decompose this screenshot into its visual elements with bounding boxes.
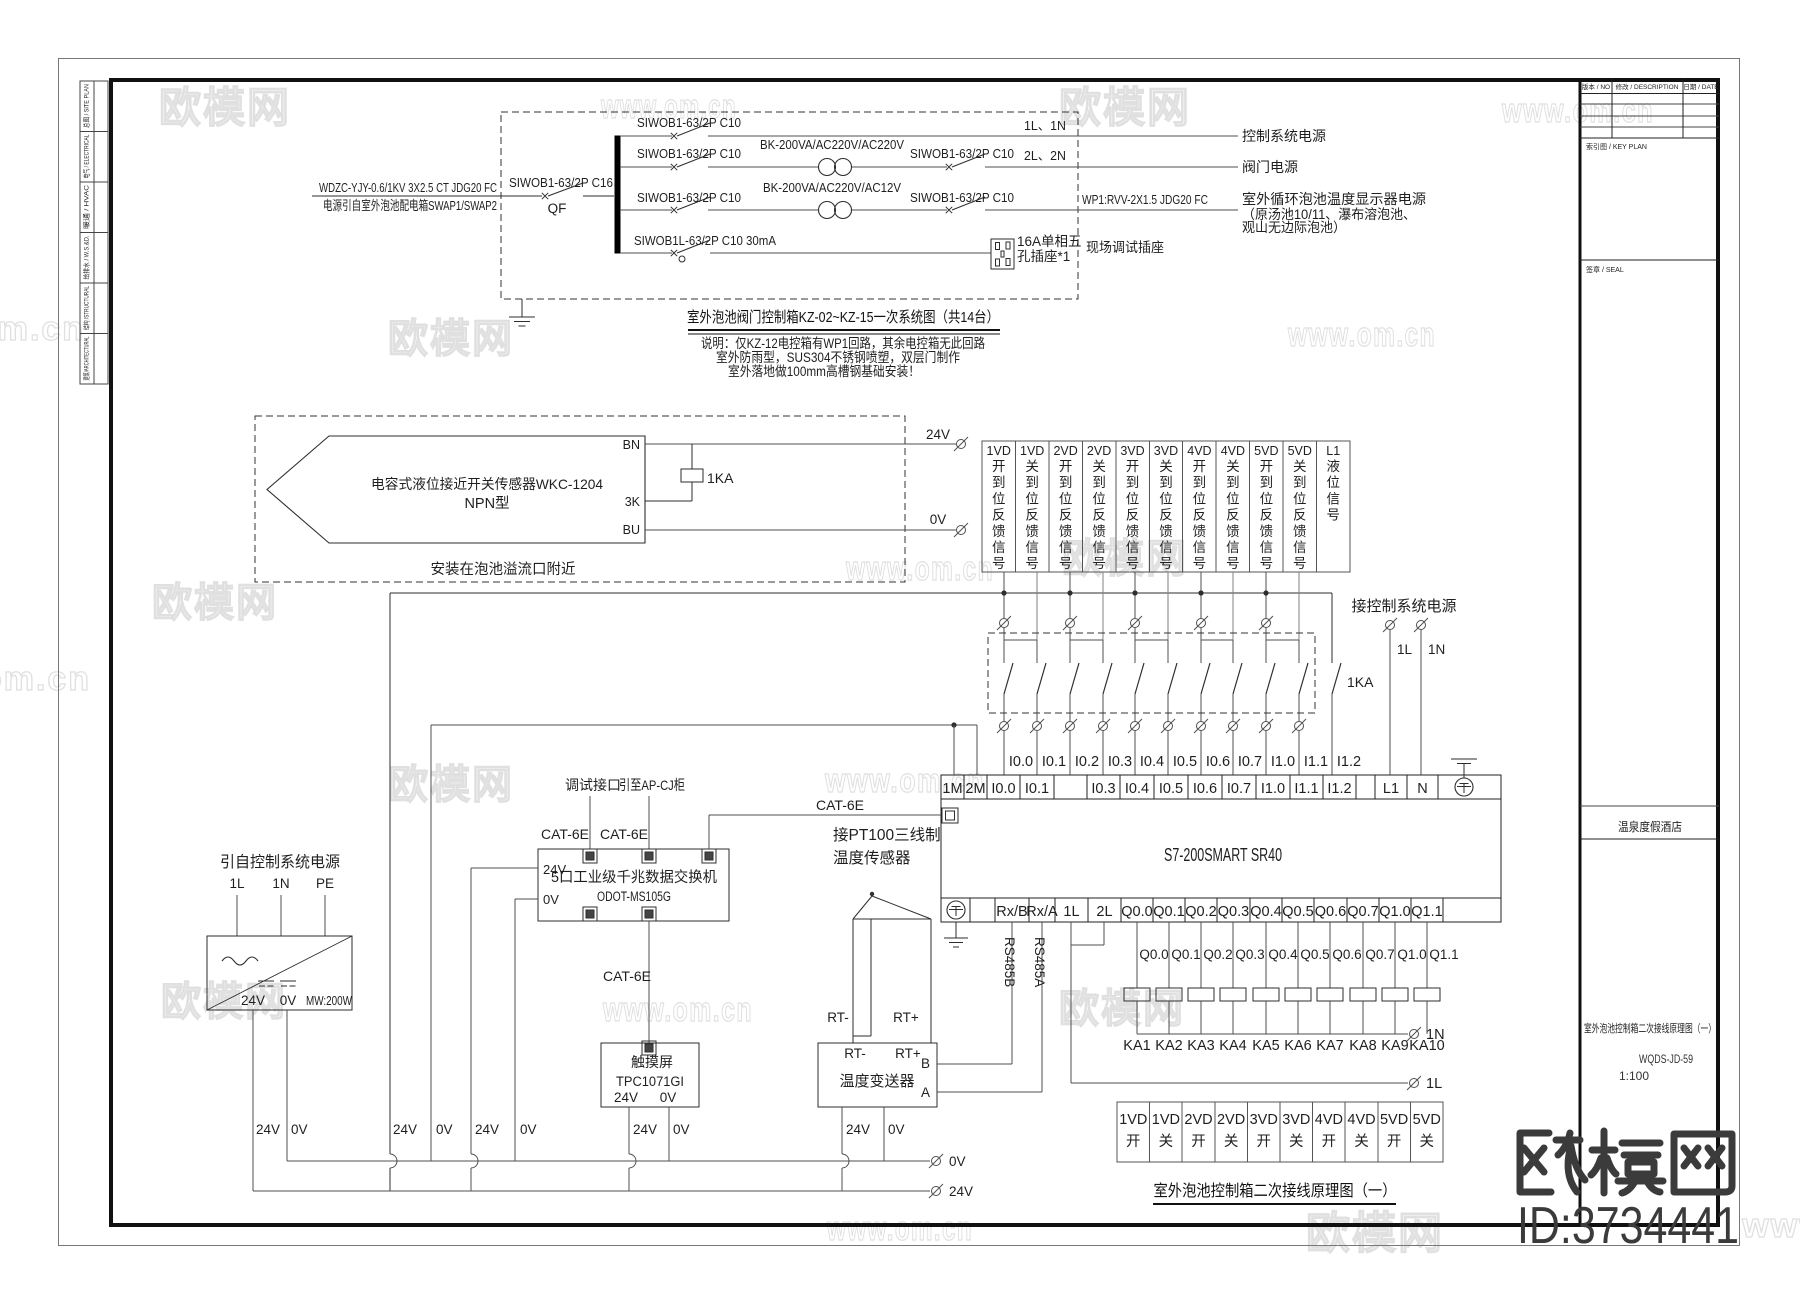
wire PSU 24V down (252, 1010, 254, 1191)
svg-text:SIWOB1-63/2P C10: SIWOB1-63/2P C10 (910, 146, 1014, 161)
svg-text:I0.6: I0.6 (1193, 781, 1217, 797)
level sensor WKC-1204 body (267, 436, 645, 543)
svg-text:24V: 24V (633, 1122, 657, 1137)
ground symbol (panel) (521, 299, 523, 317)
wire feedback pair 5 (1265, 572, 1267, 618)
svg-text:位: 位 (1326, 475, 1340, 490)
svg-text:信: 信 (1159, 540, 1173, 555)
svg-text:反: 反 (992, 508, 1006, 523)
svg-text:I0.6: I0.6 (1206, 754, 1230, 770)
wire 1N to PSU (280, 895, 282, 936)
svg-text:KA1: KA1 (1123, 1038, 1150, 1054)
svg-text:反: 反 (1226, 508, 1240, 523)
RJ45 port top1 (583, 849, 597, 863)
svg-text:总图 / SITE PLAN: 总图 / SITE PLAN (82, 84, 91, 128)
signal box L1液位信号 (1317, 441, 1350, 572)
title block (1579, 79, 1582, 1226)
signal box 3VD开到位反馈信号 (1116, 441, 1149, 572)
svg-text:SIWOB1-63/2P C10: SIWOB1-63/2P C10 (910, 190, 1014, 205)
svg-text:4VD: 4VD (1347, 1112, 1375, 1128)
relay coil 1KA (691, 444, 693, 469)
svg-text:2VD: 2VD (1087, 444, 1111, 458)
terminal PE bottom (circled earth) (947, 901, 965, 919)
svg-text:反: 反 (1159, 508, 1173, 523)
svg-text:www.om.cn: www.om.cn (1287, 316, 1436, 354)
junction bus pair2 (1067, 590, 1072, 595)
svg-text:欧模网: 欧模网 (152, 581, 278, 625)
svg-text:号: 号 (1025, 556, 1039, 571)
svg-text:KA6: KA6 (1284, 1038, 1311, 1054)
svg-text:om.cn: om.cn (0, 310, 85, 348)
svg-text:Q0.1: Q0.1 (1171, 947, 1200, 962)
svg-text:欧模网: 欧模网 (159, 84, 291, 131)
svg-text:室外泡池控制箱二次接线原理图（一）: 室外泡池控制箱二次接线原理图（一） (1154, 1182, 1397, 1200)
wire PSU 0V down (286, 1010, 288, 1161)
svg-text:Rx/A: Rx/A (1026, 904, 1058, 920)
wire 0V main down (430, 725, 432, 1161)
svg-text:WDZC-YJY-0.6/1KV 3X2.5 CT JDG2: WDZC-YJY-0.6/1KV 3X2.5 CT JDG20 FC (319, 180, 497, 195)
svg-text:24V: 24V (256, 1122, 280, 1137)
svg-text:2L: 2L (1096, 904, 1112, 920)
svg-text:电源引自室外泡池配电箱SWAP1/SWAP2: 电源引自室外泡池配电箱SWAP1/SWAP2 (323, 198, 497, 213)
svg-text:到: 到 (1092, 475, 1106, 490)
svg-text:关: 关 (1159, 459, 1173, 474)
svg-text:5VD: 5VD (1254, 444, 1278, 458)
svg-text:号: 号 (1293, 556, 1307, 571)
node contact3 lower (1063, 719, 1077, 733)
node 1N feed (1414, 618, 1428, 632)
svg-text:号: 号 (1126, 556, 1140, 571)
svg-text:欧模网: 欧模网 (1059, 987, 1185, 1031)
svg-text:KA9: KA9 (1381, 1038, 1408, 1054)
svg-text:开: 开 (992, 459, 1006, 474)
PLC output terminal row (969, 898, 971, 922)
svg-text:24V: 24V (241, 993, 265, 1008)
node 0V bus end (929, 1154, 943, 1168)
svg-text:开: 开 (1322, 1134, 1337, 1150)
svg-text:CAT-6E: CAT-6E (816, 797, 864, 813)
terminal PE top (circled earth) (1455, 778, 1473, 796)
svg-text:安装在泡池溢流口附近: 安装在泡池溢流口附近 (431, 561, 576, 578)
svg-text:反: 反 (1025, 508, 1039, 523)
svg-text:1N: 1N (272, 876, 289, 891)
svg-text:馈: 馈 (1226, 524, 1240, 539)
limit switch contact 4 (1103, 663, 1112, 694)
svg-text:欧模网: 欧模网 (1306, 1209, 1444, 1258)
svg-text:SIWOB1L-63/2P C10 30mA: SIWOB1L-63/2P C10 30mA (634, 233, 776, 248)
svg-text:www.om.cn: www.om.cn (602, 991, 753, 1029)
svg-text:调试接口: 调试接口 (565, 777, 621, 793)
svg-text:1N: 1N (1428, 642, 1445, 657)
svg-text:信: 信 (1025, 540, 1039, 555)
wire branch1 (620, 135, 672, 137)
svg-text:L1: L1 (1326, 444, 1340, 458)
svg-text:0V: 0V (888, 1122, 905, 1137)
svg-text:Q0.6: Q0.6 (1332, 947, 1361, 962)
svg-text:Q0.0: Q0.0 (1139, 947, 1168, 962)
PLC S7-200SMART SR40 body (941, 775, 1501, 922)
wire switch 0V down (514, 899, 516, 1161)
svg-text:I0.4: I0.4 (1140, 754, 1164, 770)
PT100 probe (870, 892, 874, 896)
svg-text:2M: 2M (965, 781, 985, 797)
svg-text:1VD: 1VD (1152, 1112, 1180, 1128)
svg-text:开: 开 (1191, 1134, 1206, 1150)
node 0V sensor (954, 523, 968, 537)
svg-text:位: 位 (1025, 491, 1039, 506)
svg-text:馈: 馈 (1092, 524, 1106, 539)
svg-text:信: 信 (1126, 540, 1140, 555)
signal box 2VD关到位反馈信号 (1082, 441, 1115, 572)
node contact7 lower (1194, 719, 1208, 733)
RJ45 port touchscreen (642, 1041, 656, 1055)
temperature transmitter (818, 1043, 937, 1107)
wire PE to PSU (324, 895, 326, 936)
svg-text:修改 / DESCRIPTION: 修改 / DESCRIPTION (1616, 82, 1679, 91)
svg-text:KA3: KA3 (1187, 1038, 1214, 1054)
svg-text:2VD: 2VD (1053, 444, 1077, 458)
svg-text:RT-: RT- (844, 1046, 866, 1061)
svg-text:I1.2: I1.2 (1337, 754, 1361, 770)
node terminal pair3 (1128, 616, 1142, 630)
svg-text:号: 号 (1159, 556, 1173, 571)
junction bus pair1 (1001, 590, 1006, 595)
svg-text:5口工业级千兆数据交换机: 5口工业级千兆数据交换机 (551, 868, 717, 886)
breaker branch4 SIWOB1L-63/2P C10 30mA RCD (671, 250, 677, 256)
svg-text:24V: 24V (475, 1122, 499, 1137)
wire CAT6 to touchscreen (648, 921, 650, 1043)
svg-text:5VD: 5VD (1288, 444, 1312, 458)
svg-text:馈: 馈 (1159, 524, 1173, 539)
svg-text:反: 反 (1293, 508, 1307, 523)
svg-text:信: 信 (1092, 540, 1106, 555)
node contact8 lower (1226, 719, 1240, 733)
svg-text:RS485A: RS485A (1032, 937, 1047, 987)
svg-text:KA5: KA5 (1252, 1038, 1279, 1054)
svg-text:暖通 / HVAC: 暖通 / HVAC (82, 185, 91, 229)
svg-text:接控制系统电源: 接控制系统电源 (1351, 598, 1456, 615)
valve box 1VD开 (1117, 1102, 1150, 1162)
limit switch contact 8 (1233, 663, 1242, 694)
svg-text:4VD: 4VD (1315, 1112, 1343, 1128)
svg-text:到: 到 (1126, 475, 1140, 490)
svg-text:信: 信 (1326, 491, 1340, 506)
svg-text:索引图 / KEY PLAN: 索引图 / KEY PLAN (1586, 142, 1647, 151)
svg-text:I0.2: I0.2 (1075, 754, 1099, 770)
breaker branch2b SIWOB1-63/2P C10 (946, 164, 952, 170)
svg-text:反: 反 (1193, 508, 1207, 523)
svg-text:关: 关 (1025, 459, 1039, 474)
svg-text:触摸屏: 触摸屏 (631, 1054, 673, 1070)
RJ45 port bottom1 (583, 907, 597, 921)
node terminal pair1 (997, 616, 1011, 630)
svg-text:接PT100三线制: 接PT100三线制 (833, 826, 941, 844)
node 24V sensor (954, 437, 968, 451)
svg-text:关: 关 (1092, 459, 1106, 474)
wire transmitter A (937, 1091, 1042, 1093)
wire M common (431, 724, 977, 726)
earth symbol above PLC (1451, 758, 1477, 760)
svg-text:到: 到 (1293, 475, 1307, 490)
relay coil KA5 (1265, 922, 1267, 988)
svg-text:I0.1: I0.1 (1025, 781, 1049, 797)
svg-text:开: 开 (1126, 1134, 1141, 1150)
svg-text:温度变送器: 温度变送器 (839, 1073, 914, 1090)
svg-text:馈: 馈 (1193, 524, 1207, 539)
svg-text:到: 到 (1025, 475, 1039, 490)
breaker branch3b SIWOB1-63/2P C10 (946, 207, 952, 213)
svg-text:开: 开 (1193, 459, 1207, 474)
svg-text:温度传感器: 温度传感器 (833, 849, 911, 867)
svg-text:号: 号 (1326, 508, 1340, 523)
svg-text:RT+: RT+ (893, 1010, 919, 1025)
ground symbol below PLC (955, 922, 957, 938)
svg-text:室外循环泡池温度显示器电源: 室外循环泡池温度显示器电源 (1242, 191, 1426, 207)
relay coil KA10 (1426, 922, 1428, 988)
svg-text:QF: QF (548, 201, 567, 216)
signal box 5VD关到位反馈信号 (1283, 441, 1316, 572)
signal box 2VD开到位反馈信号 (1049, 441, 1082, 572)
svg-text:24V: 24V (543, 862, 566, 877)
svg-text:日期 / DATE: 日期 / DATE (1683, 83, 1719, 91)
valve box 3VD关 (1280, 1102, 1313, 1162)
wire 1L 2L jumper (1070, 922, 1072, 1083)
node contact5 lower (1128, 719, 1142, 733)
limit switch contact 5 (1135, 663, 1144, 694)
signal box 1VD关到位反馈信号 (1015, 441, 1048, 572)
svg-text:信: 信 (1193, 540, 1207, 555)
wire touchscreen 0V down (668, 1107, 670, 1161)
svg-text:24V: 24V (949, 1184, 973, 1199)
breaker branch3 SIWOB1-63/2P C10 (671, 207, 677, 213)
node terminal pair5 (1259, 616, 1273, 630)
svg-text:位: 位 (1260, 491, 1274, 506)
limit switch contact 9 (1266, 663, 1275, 694)
svg-text:CAT-6E: CAT-6E (600, 826, 648, 842)
svg-text:液: 液 (1326, 459, 1340, 474)
relay contact 1KA (1331, 593, 1333, 663)
svg-text:开: 开 (1387, 1134, 1402, 1150)
wire branch2 (620, 166, 672, 168)
svg-text:位: 位 (1059, 491, 1073, 506)
svg-text:www.om.cn: www.om.cn (826, 1210, 973, 1248)
relay coil KA4 (1232, 922, 1234, 988)
junction bus pair4 (1198, 590, 1203, 595)
wire 24V bus (253, 1190, 930, 1192)
svg-text:I0.0: I0.0 (1009, 754, 1033, 770)
svg-text:开: 开 (1059, 459, 1073, 474)
svg-text:给排水 / W.S.&D.: 给排水 / W.S.&D. (82, 235, 91, 279)
wire RS485A (1041, 922, 1043, 1092)
wire branch3 (620, 209, 672, 211)
svg-text:www.om.cn: www.om.cn (1501, 92, 1654, 130)
svg-text:BN: BN (623, 438, 640, 452)
svg-text:I1.1: I1.1 (1304, 754, 1328, 770)
limit switch contact 2 (1037, 663, 1046, 694)
svg-text:欧模网: 欧模网 (388, 317, 514, 361)
svg-text:现场调试插座: 现场调试插座 (1086, 240, 1164, 255)
wire CAT6 port1 up (589, 796, 591, 849)
svg-text:号: 号 (992, 556, 1006, 571)
node contact2 lower (1030, 719, 1044, 733)
svg-text:到: 到 (992, 475, 1006, 490)
svg-text:馈: 馈 (1293, 524, 1307, 539)
svg-text:2VD: 2VD (1217, 1112, 1245, 1128)
valve box 3VD开 (1247, 1102, 1280, 1162)
inner thick border frame (111, 80, 1718, 1225)
svg-text:I0.0: I0.0 (991, 781, 1015, 797)
svg-text:0V: 0V (930, 512, 947, 527)
svg-text:1VD: 1VD (1020, 444, 1044, 458)
svg-text:1L、1N: 1L、1N (1024, 118, 1066, 133)
node contact4 lower (1096, 719, 1110, 733)
svg-text:I1.1: I1.1 (1294, 781, 1318, 797)
relay coil KA2 (1168, 922, 1170, 988)
wire pair bridge 4 (1201, 639, 1233, 641)
wire transmitter B (937, 1063, 1012, 1065)
svg-text:I0.1: I0.1 (1042, 754, 1066, 770)
svg-text:1VD: 1VD (987, 444, 1011, 458)
wire branch4 (620, 252, 672, 254)
node 24V bus end (929, 1184, 943, 1198)
svg-text:位: 位 (1226, 491, 1240, 506)
svg-text:欧模网: 欧模网 (1059, 84, 1191, 131)
svg-text:CAT-6E: CAT-6E (603, 968, 651, 984)
svg-text:1L: 1L (229, 876, 245, 891)
svg-text:SIWOB1-63/2P C10: SIWOB1-63/2P C10 (637, 190, 741, 205)
svg-text:Q1.1: Q1.1 (1429, 947, 1458, 962)
node contact1 lower (997, 719, 1011, 733)
watermark 欧模网 big (1520, 1131, 1732, 1193)
svg-text:Q0.7: Q0.7 (1347, 904, 1378, 920)
junction M line (951, 722, 956, 727)
wire feedback pair 3 (1134, 572, 1136, 618)
svg-text:Q0.0: Q0.0 (1121, 904, 1152, 920)
PSU 24V power supply MW:200W (207, 936, 352, 1010)
svg-text:I0.7: I0.7 (1227, 781, 1251, 797)
wire pair bridge 1 (1004, 639, 1037, 641)
wire transmitter 24V down (841, 1107, 843, 1154)
svg-text:关: 关 (1293, 459, 1307, 474)
svg-text:电容式液位接近开关传感器WKC-1204: 电容式液位接近开关传感器WKC-1204 (371, 476, 603, 492)
relay coil KA8 (1362, 922, 1364, 988)
svg-text:馈: 馈 (1126, 524, 1140, 539)
svg-text:0V: 0V (673, 1122, 690, 1137)
svg-text:Q0.7: Q0.7 (1365, 947, 1394, 962)
svg-text:反: 反 (1092, 508, 1106, 523)
node 1L feed (1383, 618, 1397, 632)
svg-text:NPN型: NPN型 (464, 495, 509, 512)
svg-text:3VD: 3VD (1120, 444, 1144, 458)
svg-text:关: 关 (1226, 459, 1240, 474)
svg-text:BK-200VA/AC220V/AC220V: BK-200VA/AC220V/AC220V (760, 137, 904, 152)
svg-text:WP1:RVV-2X1.5 JDG20 FC: WP1:RVV-2X1.5 JDG20 FC (1082, 192, 1208, 207)
svg-text:Q0.4: Q0.4 (1268, 947, 1298, 962)
svg-text:KA4: KA4 (1219, 1038, 1246, 1054)
svg-text:Q0.2: Q0.2 (1185, 904, 1216, 920)
svg-text:1:100: 1:100 (1619, 1069, 1649, 1083)
svg-text:4VD: 4VD (1187, 444, 1211, 458)
svg-text:号: 号 (1193, 556, 1207, 571)
breaker branch2 SIWOB1-63/2P C10 (671, 164, 677, 170)
busbar (615, 136, 620, 253)
relay coil KA6 (1297, 922, 1299, 988)
svg-text:观山无边际泡池）: 观山无边际泡池） (1242, 220, 1346, 235)
svg-text:版本 / NO: 版本 / NO (1582, 82, 1610, 91)
wire CAT6 to PLC (708, 815, 710, 849)
signal box 5VD开到位反馈信号 (1250, 441, 1283, 572)
svg-text:4VD: 4VD (1221, 444, 1245, 458)
svg-text:位: 位 (1193, 491, 1207, 506)
svg-text:5VD: 5VD (1413, 1112, 1441, 1128)
level sensor dashed enclosure (255, 416, 905, 582)
svg-text:TPC1071GI: TPC1071GI (616, 1074, 684, 1089)
svg-text:温泉度假酒店: 温泉度假酒店 (1618, 819, 1682, 834)
svg-text:到: 到 (1159, 475, 1173, 490)
svg-text:Q0.4: Q0.4 (1250, 904, 1281, 920)
wire 1L feed (1389, 630, 1391, 775)
svg-text:ID:3734441: ID:3734441 (1517, 1197, 1739, 1255)
svg-text:I0.7: I0.7 (1238, 754, 1262, 770)
svg-text:RS485B: RS485B (1002, 937, 1017, 987)
svg-text:Q0.6: Q0.6 (1315, 904, 1346, 920)
RJ45 port top3 (702, 849, 716, 863)
svg-text:信: 信 (1293, 540, 1307, 555)
touchscreen TPC1071GI (601, 1043, 699, 1107)
svg-text:3VD: 3VD (1282, 1112, 1310, 1128)
node terminal pair4 (1194, 616, 1208, 630)
debug port icon on PLC (942, 808, 958, 823)
svg-text:位: 位 (1159, 491, 1173, 506)
signal box 4VD开到位反馈信号 (1183, 441, 1216, 572)
svg-text:Q0.5: Q0.5 (1300, 947, 1329, 962)
svg-text:Q1.0: Q1.0 (1397, 947, 1426, 962)
wire feedback pair 2 (1069, 572, 1071, 618)
svg-text:Q1.0: Q1.0 (1379, 904, 1410, 920)
svg-text:馈: 馈 (1260, 524, 1274, 539)
svg-text:BU: BU (623, 523, 640, 537)
svg-text:信: 信 (1059, 540, 1073, 555)
svg-text:B: B (921, 1056, 930, 1071)
node 1N (1407, 1027, 1421, 1041)
wire 1N feed (1420, 630, 1422, 775)
svg-text:1N: 1N (1426, 1027, 1445, 1043)
limit switch contact 7 (1201, 663, 1210, 694)
svg-text:24V: 24V (846, 1122, 870, 1137)
socket 16A (991, 239, 1014, 269)
svg-text:Q0.1: Q0.1 (1153, 904, 1184, 920)
svg-text:控制系统电源: 控制系统电源 (1242, 128, 1326, 144)
discipline label strip (80, 81, 108, 384)
svg-text:1VD: 1VD (1119, 1112, 1147, 1128)
svg-text:说明：仅KZ-12电控箱有WP1回路，其余电控箱无此回路: 说明：仅KZ-12电控箱有WP1回路，其余电控箱无此回路 (701, 335, 985, 351)
wire 3K (645, 500, 692, 502)
svg-text:3VD: 3VD (1250, 1112, 1278, 1128)
node terminal pair2 (1063, 616, 1077, 630)
wire transmitter 0V down (883, 1107, 885, 1161)
wire RS485B (1011, 922, 1013, 1064)
svg-text:信: 信 (1226, 540, 1240, 555)
svg-text:0V: 0V (520, 1122, 537, 1137)
signal box 3VD关到位反馈信号 (1149, 441, 1182, 572)
svg-text:1L: 1L (1426, 1076, 1442, 1092)
svg-text:I1.0: I1.0 (1261, 781, 1285, 797)
svg-text:馈: 馈 (992, 524, 1006, 539)
limit switch contact 6 (1168, 663, 1177, 694)
svg-text:信: 信 (992, 540, 1006, 555)
wire touchscreen 24V down (628, 1107, 630, 1154)
wire pair bridge 5 (1266, 639, 1299, 641)
